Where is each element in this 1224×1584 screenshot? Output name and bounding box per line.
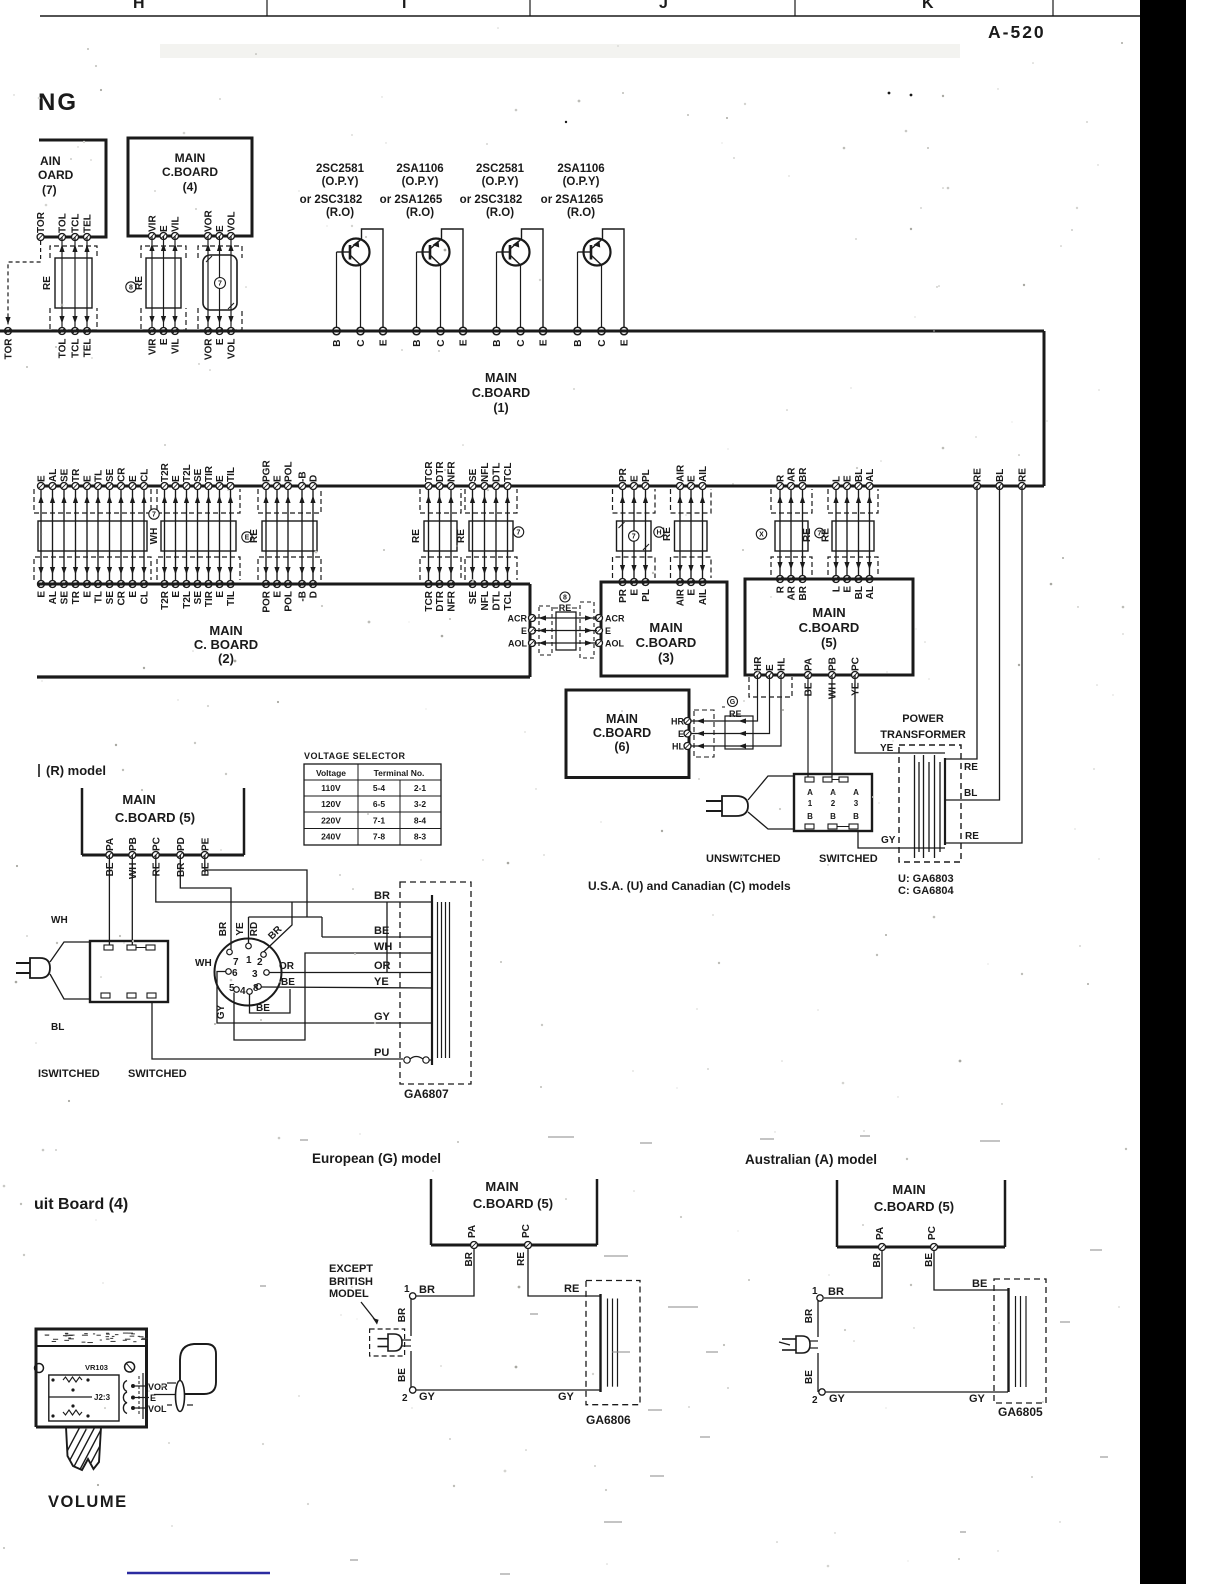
svg-text:AL: AL [865, 586, 876, 599]
svg-text:AOL: AOL [605, 639, 625, 649]
svg-text:(O.P.Y): (O.P.Y) [482, 176, 519, 188]
svg-text:PL: PL [641, 469, 652, 482]
svg-text:HL: HL [672, 742, 684, 752]
svg-text:BE: BE [972, 1278, 987, 1290]
svg-text:CR: CR [117, 590, 128, 605]
svg-text:(5): (5) [821, 635, 837, 650]
svg-text:OR: OR [374, 960, 391, 972]
svg-text:E: E [843, 475, 854, 482]
svg-text:AIR: AIR [676, 464, 687, 482]
svg-text:7: 7 [517, 530, 521, 537]
svg-text:7-8: 7-8 [373, 832, 386, 842]
svg-text:RE: RE [821, 528, 832, 542]
svg-text:GY: GY [374, 1011, 391, 1023]
svg-text:MODEL: MODEL [329, 1288, 369, 1300]
svg-text:SWITCHED: SWITCHED [819, 853, 878, 865]
svg-text:-B: -B [298, 591, 309, 602]
svg-text:RE: RE [134, 276, 145, 290]
svg-text:Terminal No.: Terminal No. [374, 768, 425, 778]
svg-text:AR: AR [787, 467, 798, 482]
svg-text:SE: SE [105, 468, 116, 482]
svg-text:RE: RE [516, 1252, 527, 1266]
svg-text:BL: BL [995, 469, 1006, 482]
svg-text:RE: RE [456, 529, 467, 543]
svg-text:E: E [171, 591, 182, 598]
svg-text:2SA1106: 2SA1106 [396, 163, 443, 175]
svg-text:PU: PU [374, 1047, 389, 1059]
svg-text:E: E [605, 626, 611, 636]
svg-text:or 2SA1265: or 2SA1265 [541, 194, 604, 206]
svg-text:AIL: AIL [698, 589, 709, 605]
svg-text:120V: 120V [321, 799, 341, 809]
svg-text:AIR: AIR [676, 588, 687, 606]
svg-text:L: L [832, 476, 843, 482]
svg-text:RE: RE [802, 528, 813, 542]
svg-text:AL: AL [48, 469, 59, 482]
svg-text:E: E [128, 591, 139, 598]
svg-text:110V: 110V [321, 783, 341, 793]
svg-text:(O.P.Y): (O.P.Y) [563, 176, 600, 188]
svg-text:3-2: 3-2 [414, 799, 427, 809]
svg-text:C: GA6804: C: GA6804 [898, 885, 955, 897]
svg-text:E: E [273, 475, 284, 482]
svg-text:K: K [922, 0, 934, 12]
svg-text:UNSWITCHED: UNSWITCHED [706, 853, 781, 865]
svg-text:B: B [332, 340, 343, 347]
svg-text:E: E [678, 729, 684, 739]
svg-text:MAIN: MAIN [122, 792, 155, 807]
svg-text:B: B [807, 812, 813, 821]
svg-text:AL: AL [48, 591, 59, 604]
svg-text:DTL: DTL [492, 591, 503, 610]
svg-text:RE: RE [1018, 468, 1029, 482]
svg-text:WH: WH [195, 958, 212, 969]
svg-text:8-4: 8-4 [414, 815, 427, 825]
svg-text:BE: BE [804, 682, 815, 696]
svg-text:RE: RE [729, 709, 742, 719]
svg-text:VOL: VOL [227, 211, 238, 232]
svg-text:E: E [379, 339, 390, 346]
svg-text:PA: PA [804, 658, 815, 671]
svg-text:POL: POL [284, 461, 295, 482]
svg-text:(2): (2) [218, 651, 234, 666]
svg-text:SE: SE [468, 468, 479, 482]
svg-text:VOL: VOL [227, 339, 238, 360]
svg-text:3: 3 [854, 799, 859, 808]
svg-text:PA: PA [467, 1225, 478, 1238]
svg-text:BE: BE [200, 862, 211, 876]
svg-text:SWITCHED: SWITCHED [128, 1068, 187, 1080]
svg-text:RE: RE [564, 1283, 579, 1295]
svg-text:E: E [159, 338, 170, 345]
svg-text:8: 8 [129, 285, 133, 292]
svg-text:7: 7 [218, 281, 222, 288]
svg-text:WH: WH [51, 915, 68, 926]
svg-text:BL: BL [51, 1022, 64, 1033]
svg-text:-B: -B [298, 471, 309, 482]
svg-text:A: A [853, 788, 859, 797]
svg-text:C.BOARD: C.BOARD [162, 165, 218, 179]
svg-text:E: E [128, 475, 139, 482]
svg-text:E: E [765, 664, 776, 671]
svg-text:PA: PA [105, 838, 116, 851]
svg-text:TOR: TOR [36, 211, 47, 233]
svg-text:MAIN: MAIN [209, 623, 242, 638]
svg-text:E: E [273, 591, 284, 598]
svg-text:CL: CL [140, 469, 151, 482]
svg-text:TIR: TIR [204, 590, 215, 607]
svg-text:4: 4 [240, 986, 246, 997]
svg-text:TR: TR [71, 590, 82, 604]
svg-text:H: H [656, 530, 661, 537]
svg-text:J: J [659, 0, 668, 12]
svg-text:PR: PR [618, 467, 629, 482]
svg-text:or 2SC3182: or 2SC3182 [300, 194, 363, 206]
svg-text:(O.P.Y): (O.P.Y) [402, 176, 439, 188]
svg-text:RE: RE [249, 529, 260, 543]
svg-text:7: 7 [632, 534, 636, 541]
svg-text:H: H [133, 0, 145, 12]
svg-text:(R.O): (R.O) [326, 207, 354, 219]
svg-text:T2L: T2L [182, 591, 193, 609]
svg-text:2: 2 [257, 957, 263, 968]
svg-text:U: GA6803: U: GA6803 [898, 873, 954, 885]
svg-text:(O.P.Y): (O.P.Y) [322, 176, 359, 188]
svg-text:220V: 220V [321, 815, 341, 825]
svg-text:7: 7 [152, 512, 156, 519]
svg-text:E: E [630, 475, 641, 482]
svg-text:ACR: ACR [508, 614, 528, 624]
svg-text:DTR: DTR [435, 461, 446, 482]
svg-text:uit Board (4): uit Board (4) [34, 1196, 128, 1213]
svg-text:TCL: TCL [503, 463, 514, 482]
svg-text:X: X [759, 532, 764, 539]
svg-text:DTL: DTL [492, 463, 503, 482]
svg-text:E: E [215, 225, 226, 232]
svg-text:TCL: TCL [71, 339, 82, 358]
svg-text:VIL: VIL [171, 339, 182, 355]
svg-text:8: 8 [563, 595, 567, 602]
svg-text:NFL: NFL [480, 591, 491, 610]
svg-text:VOR: VOR [204, 338, 215, 360]
svg-text:SE: SE [468, 591, 479, 605]
svg-text:(R) model: (R) model [46, 763, 106, 778]
svg-text:GY: GY [969, 1393, 986, 1405]
svg-text:European (G) model: European (G) model [312, 1151, 441, 1166]
svg-text:POL: POL [284, 591, 295, 612]
svg-text:BR: BR [374, 890, 390, 902]
svg-text:BR: BR [798, 467, 809, 482]
svg-text:POWER: POWER [902, 713, 944, 725]
svg-text:2SA1106: 2SA1106 [557, 163, 604, 175]
svg-text:ACR: ACR [605, 614, 625, 624]
svg-text:E: E [539, 339, 550, 346]
svg-text:BE: BE [256, 1003, 270, 1014]
svg-text:GA6806: GA6806 [586, 1413, 631, 1427]
svg-text:C.BOARD (5): C.BOARD (5) [473, 1196, 553, 1211]
svg-text:TR: TR [71, 468, 82, 482]
svg-text:(6): (6) [614, 740, 629, 754]
svg-text:AIL: AIL [698, 466, 709, 482]
svg-text:(1): (1) [493, 401, 508, 415]
svg-text:MAIN: MAIN [892, 1182, 925, 1197]
svg-text:BE: BE [105, 862, 116, 876]
svg-text:BR: BR [218, 921, 229, 936]
svg-text:RE: RE [965, 831, 979, 842]
svg-text:(R.O): (R.O) [567, 207, 595, 219]
svg-text:G: G [730, 699, 736, 706]
svg-text:B: B [492, 340, 503, 347]
svg-text:or 2SA1265: or 2SA1265 [380, 194, 443, 206]
svg-text:(R.O): (R.O) [406, 207, 434, 219]
svg-text:TEL: TEL [83, 214, 94, 233]
svg-text:GY: GY [419, 1391, 436, 1403]
svg-text:TRANSFORMER: TRANSFORMER [880, 729, 966, 741]
svg-text:DTR: DTR [435, 590, 446, 611]
svg-text:TIL: TIL [226, 467, 237, 482]
svg-text:PC: PC [927, 1226, 938, 1240]
svg-text:TCR: TCR [424, 590, 435, 611]
svg-text:E: E [83, 475, 94, 482]
svg-text:PA: PA [875, 1227, 886, 1240]
svg-text:RE: RE [151, 862, 162, 876]
svg-text:E: E [171, 475, 182, 482]
svg-text:I: I [402, 0, 406, 12]
svg-text:C: C [356, 340, 367, 347]
svg-text:B: B [573, 340, 584, 347]
svg-text:HR: HR [671, 717, 684, 727]
svg-text:NFR: NFR [447, 590, 458, 611]
svg-text:E: E [620, 339, 631, 346]
svg-text:B: B [830, 812, 836, 821]
svg-text:D: D [309, 475, 320, 482]
svg-text:YE: YE [851, 682, 862, 696]
svg-text:7: 7 [233, 957, 239, 968]
svg-text:YE: YE [880, 743, 894, 754]
svg-text:AR: AR [787, 585, 798, 600]
svg-text:5: 5 [229, 983, 235, 994]
svg-text:TOL: TOL [58, 213, 69, 233]
svg-text:BL: BL [854, 586, 865, 599]
svg-text:VIR: VIR [148, 215, 159, 232]
svg-text:C: C [597, 340, 608, 347]
svg-text:MAIN: MAIN [485, 371, 517, 385]
svg-text:YE: YE [374, 976, 389, 988]
svg-text:A-520: A-520 [988, 22, 1046, 42]
svg-text:SE: SE [193, 468, 204, 482]
svg-text:OR: OR [279, 961, 295, 972]
svg-text:C. BOARD: C. BOARD [194, 637, 258, 652]
svg-text:TEL: TEL [83, 339, 94, 358]
svg-text:GY: GY [829, 1393, 846, 1405]
svg-text:BE: BE [804, 1370, 815, 1384]
svg-text:NFL: NFL [480, 463, 491, 482]
svg-text:MAIN: MAIN [649, 620, 682, 635]
svg-text:C: C [516, 340, 527, 347]
svg-text:HL: HL [777, 658, 788, 671]
svg-text:PB: PB [828, 657, 839, 671]
svg-text:VIR: VIR [148, 338, 159, 355]
svg-text:VR103: VR103 [85, 1363, 108, 1372]
svg-text:2: 2 [402, 1393, 408, 1404]
svg-text:MAIN: MAIN [485, 1179, 518, 1194]
svg-text:BRITISH: BRITISH [329, 1276, 373, 1288]
svg-text:POR: POR [262, 590, 273, 612]
svg-text:SE: SE [193, 591, 204, 605]
svg-text:8-3: 8-3 [414, 832, 427, 842]
svg-text:GY: GY [216, 1004, 227, 1019]
svg-text:E: E [687, 589, 698, 596]
svg-text:1: 1 [246, 955, 252, 966]
svg-text:WH: WH [128, 863, 139, 880]
svg-text:CR: CR [117, 467, 128, 482]
svg-text:BR: BR [419, 1284, 435, 1296]
svg-text:RE: RE [42, 276, 53, 290]
svg-text:L: L [832, 586, 843, 592]
svg-text:TOR: TOR [4, 338, 15, 360]
svg-text:PGR: PGR [262, 460, 273, 482]
svg-text:2SC2581: 2SC2581 [476, 163, 525, 175]
svg-text:OARD: OARD [38, 168, 74, 182]
svg-text:TIR: TIR [204, 465, 215, 482]
svg-text:Voltage: Voltage [316, 768, 346, 778]
svg-text:GY: GY [881, 835, 896, 846]
svg-text:ISWITCHED: ISWITCHED [38, 1068, 100, 1080]
svg-text:GA6805: GA6805 [998, 1405, 1043, 1419]
svg-text:SE: SE [105, 591, 116, 605]
svg-text:T2R: T2R [160, 590, 171, 610]
svg-text:NG: NG [38, 89, 78, 116]
svg-text:D: D [309, 591, 320, 598]
svg-text:1: 1 [404, 1284, 410, 1295]
svg-text:E: E [159, 225, 170, 232]
svg-text:BL: BL [964, 788, 977, 799]
svg-text:TIL: TIL [226, 591, 237, 606]
svg-text:SE: SE [60, 468, 71, 482]
svg-text:7-1: 7-1 [373, 815, 386, 825]
svg-text:PD: PD [176, 837, 187, 851]
svg-text:B: B [412, 340, 423, 347]
svg-text:Australian (A) model: Australian (A) model [745, 1152, 877, 1167]
svg-text:2SC2581: 2SC2581 [316, 163, 365, 175]
svg-text:6-5: 6-5 [373, 799, 386, 809]
svg-text:WH: WH [374, 941, 392, 953]
svg-text:VIL: VIL [171, 216, 182, 232]
svg-text:2: 2 [812, 1395, 818, 1406]
svg-text:5-4: 5-4 [373, 783, 386, 793]
svg-text:BR: BR [176, 862, 187, 877]
svg-text:or 2SC3182: or 2SC3182 [460, 194, 523, 206]
svg-text:WH: WH [149, 528, 160, 545]
svg-text:C: C [436, 340, 447, 347]
svg-text:RE: RE [662, 527, 673, 541]
svg-text:BE: BE [281, 977, 295, 988]
svg-text:E: E [630, 589, 641, 596]
svg-text:R: R [776, 474, 787, 482]
svg-text:E: E [37, 591, 48, 598]
svg-text:BR: BR [798, 585, 809, 600]
svg-text:E: E [843, 586, 854, 593]
svg-text:BL: BL [854, 469, 865, 482]
svg-text:C.BOARD (5): C.BOARD (5) [874, 1199, 954, 1214]
svg-text:J2:3: J2:3 [94, 1393, 111, 1402]
svg-text:YE: YE [235, 922, 246, 936]
svg-text:VOLTAGE SELECTOR: VOLTAGE SELECTOR [304, 751, 406, 761]
svg-text:VOR: VOR [204, 210, 215, 232]
svg-text:TCL: TCL [503, 591, 514, 610]
svg-text:E: E [37, 475, 48, 482]
svg-text:TL: TL [94, 470, 105, 482]
svg-text:MAIN: MAIN [175, 151, 206, 165]
svg-text:VOR: VOR [148, 1382, 168, 1392]
svg-text:E: E [215, 591, 226, 598]
svg-text:VOLUME: VOLUME [48, 1493, 128, 1511]
svg-text:E: E [521, 626, 527, 636]
svg-text:GY: GY [558, 1391, 575, 1403]
svg-text:BR: BR [804, 1308, 815, 1323]
svg-text:GA6807: GA6807 [404, 1087, 449, 1101]
svg-text:BE: BE [397, 1368, 408, 1382]
svg-text:PC: PC [851, 657, 862, 671]
svg-text:E: E [215, 475, 226, 482]
svg-text:BR: BR [828, 1286, 844, 1298]
svg-text:1: 1 [812, 1286, 818, 1297]
svg-text:PB: PB [128, 837, 139, 851]
svg-text:2-1: 2-1 [414, 783, 427, 793]
svg-text:8: 8 [253, 983, 259, 994]
svg-text:C.BOARD: C.BOARD [593, 726, 651, 740]
svg-text:PC: PC [151, 837, 162, 851]
svg-text:VOL: VOL [148, 1404, 167, 1414]
svg-text:RD: RD [249, 922, 260, 936]
svg-text:PC: PC [521, 1224, 532, 1238]
svg-text:1: 1 [808, 799, 813, 808]
svg-text:(4): (4) [183, 180, 198, 194]
svg-text:TL: TL [94, 591, 105, 603]
svg-text:TCR: TCR [424, 461, 435, 482]
svg-text:NFR: NFR [447, 461, 458, 482]
svg-text:PR: PR [618, 588, 629, 603]
svg-text:RE: RE [964, 762, 978, 773]
svg-text:RE: RE [411, 529, 422, 543]
svg-text:AIN: AIN [40, 154, 61, 168]
svg-text:C.BOARD: C.BOARD [472, 386, 530, 400]
svg-text:PL: PL [641, 589, 652, 602]
svg-text:BR: BR [397, 1307, 408, 1322]
svg-text:3: 3 [252, 969, 258, 980]
svg-text:EXCEPT: EXCEPT [329, 1263, 373, 1275]
svg-text:BE: BE [374, 925, 389, 937]
svg-text:B: B [853, 812, 859, 821]
svg-text:RE: RE [973, 468, 984, 482]
svg-text:(7): (7) [42, 183, 57, 197]
svg-text:C.BOARD: C.BOARD [636, 635, 697, 650]
svg-text:A: A [807, 788, 813, 797]
svg-text:T2R: T2R [160, 462, 171, 482]
svg-text:240V: 240V [321, 832, 341, 842]
svg-text:U.S.A. (U) and Canadian (C): U.S.A. (U) and Canadian (C) models [588, 879, 791, 893]
svg-text:E: E [687, 475, 698, 482]
svg-text:C.BOARD (5): C.BOARD (5) [115, 810, 195, 825]
svg-text:TCL: TCL [71, 214, 82, 233]
svg-text:RE: RE [559, 603, 572, 613]
svg-text:AOL: AOL [508, 639, 528, 649]
svg-text:E: E [459, 339, 470, 346]
svg-text:T2L: T2L [182, 464, 193, 482]
svg-text:E: E [215, 338, 226, 345]
svg-text:2: 2 [831, 799, 836, 808]
svg-text:AL: AL [865, 469, 876, 482]
